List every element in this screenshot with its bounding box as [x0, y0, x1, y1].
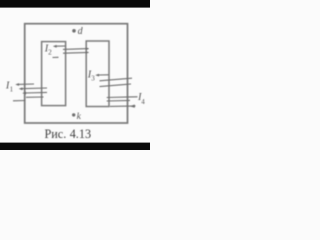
svg-text:1: 1 [10, 86, 14, 94]
svg-text:4: 4 [141, 98, 145, 106]
svg-text:2: 2 [48, 49, 52, 57]
svg-text:Рис. 4.13: Рис. 4.13 [45, 127, 92, 141]
svg-text:3: 3 [91, 74, 95, 82]
